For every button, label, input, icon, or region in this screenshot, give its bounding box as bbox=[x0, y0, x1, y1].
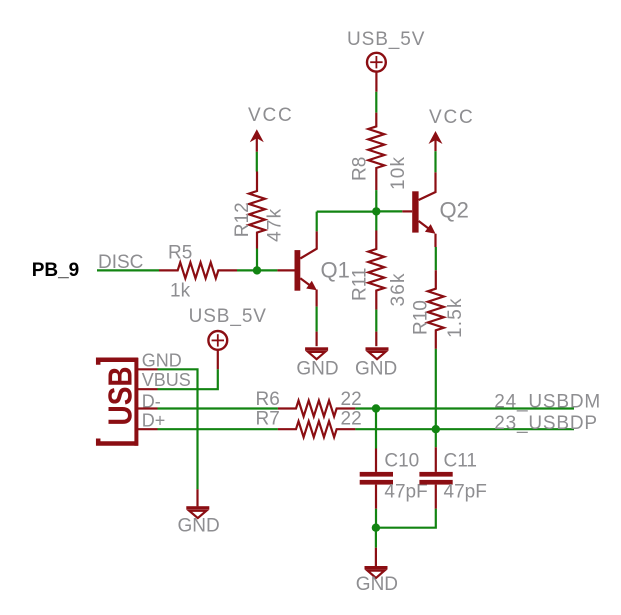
junction node C10/USBDM bbox=[372, 404, 380, 412]
ground symbol (bottom) bbox=[365, 566, 388, 578]
svg-text:36k: 36k bbox=[388, 272, 409, 306]
wire junction to R11 bbox=[375, 211, 377, 230]
resistor R11 bbox=[368, 231, 384, 310]
svg-text:R8: R8 bbox=[350, 157, 371, 181]
svg-text:VCC: VCC bbox=[429, 107, 475, 128]
wire VCC to Q2 collector bbox=[434, 151, 436, 172]
wire Q1 collector up bbox=[316, 212, 318, 232]
svg-text:R7: R7 bbox=[256, 408, 280, 429]
svg-text:USB_5V: USB_5V bbox=[189, 306, 267, 327]
wire Q2 emitter down bbox=[434, 234, 436, 247]
transistor Q1 base stub bbox=[277, 269, 294, 271]
svg-text:GND: GND bbox=[355, 359, 397, 380]
wire emitter net bbox=[316, 307, 318, 332]
svg-text:R6: R6 bbox=[256, 389, 280, 410]
wire R11 to GND bbox=[375, 310, 377, 332]
wire 23_USBDP net bbox=[355, 428, 574, 430]
svg-text:PB_9: PB_9 bbox=[32, 260, 80, 281]
resistor R6 bbox=[278, 401, 356, 417]
ground symbol (R11) bbox=[366, 347, 389, 359]
junction node DISC/R12/Q1 bbox=[253, 266, 261, 274]
wire USB_5V to R8 bbox=[375, 92, 377, 113]
wire 24_USBDM net bbox=[355, 407, 574, 409]
svg-text:GND: GND bbox=[178, 516, 220, 537]
wire D- net to R6 bbox=[158, 407, 278, 409]
svg-text:47k: 47k bbox=[265, 208, 286, 242]
svg-text:47pF: 47pF bbox=[444, 482, 487, 503]
svg-text:VBUS: VBUS bbox=[142, 370, 191, 390]
wire C11 to GND junction bbox=[376, 509, 436, 528]
svg-text:C10: C10 bbox=[384, 451, 419, 472]
wire VCC to R12 bbox=[256, 152, 258, 172]
connector J1 USB body bbox=[98, 358, 138, 446]
resistor R7 bbox=[278, 421, 356, 437]
wire R12 to junction bbox=[256, 249, 258, 271]
pin D- stub bbox=[138, 407, 158, 409]
svg-text:Q2: Q2 bbox=[440, 198, 469, 223]
wire Q1 collector to junction bbox=[317, 211, 377, 213]
wire USBDP to C11 bbox=[435, 429, 437, 447]
wire USBDM to C10 bbox=[375, 409, 377, 449]
svg-text:USB: USB bbox=[101, 366, 139, 425]
pin D+ stub bbox=[138, 428, 158, 430]
svg-text:GND: GND bbox=[142, 351, 182, 371]
svg-text:1.5k: 1.5k bbox=[445, 297, 466, 338]
svg-text:10k: 10k bbox=[388, 156, 409, 190]
wire to GND stub bbox=[316, 332, 318, 347]
capacitor C11 bbox=[419, 447, 452, 509]
svg-text:47pF: 47pF bbox=[384, 482, 427, 503]
svg-text:D+: D+ bbox=[142, 411, 166, 431]
transistor Q2 base stub bbox=[402, 210, 412, 212]
resistor R12 bbox=[249, 172, 265, 249]
wire D+ net to R7 bbox=[158, 428, 278, 430]
wire GND net from USB bbox=[158, 369, 198, 489]
wire Q1 emitter down bbox=[316, 290, 318, 307]
power symbol USB_5V (top) bbox=[347, 29, 425, 92]
wire R5 to Q1 base bbox=[237, 269, 277, 271]
wire USB_5V to VBUS bbox=[158, 369, 218, 389]
wire junction to GND bbox=[375, 528, 377, 548]
transistor Q2 bbox=[412, 172, 435, 233]
wire C10 to GND junction bbox=[375, 509, 377, 528]
svg-text:R10: R10 bbox=[410, 300, 431, 335]
pin VBUS stub bbox=[138, 388, 158, 390]
ground symbol (USB) bbox=[186, 506, 209, 518]
wire R10 to USBDP net bbox=[435, 349, 437, 429]
svg-text:22: 22 bbox=[341, 408, 362, 429]
svg-text:GND: GND bbox=[296, 359, 338, 380]
svg-text:24_USBDM: 24_USBDM bbox=[494, 392, 601, 413]
svg-text:1k: 1k bbox=[170, 280, 191, 301]
resistor R5 bbox=[159, 262, 237, 278]
resistor R8 bbox=[368, 113, 384, 191]
wire R8 to junction bbox=[375, 190, 377, 211]
svg-text:23_USBDP: 23_USBDP bbox=[494, 413, 598, 434]
junction node R8/Q1/Q2/R11 bbox=[372, 207, 380, 215]
capacitor C10 bbox=[360, 449, 393, 509]
svg-text:USB_5V: USB_5V bbox=[347, 29, 425, 50]
junction node bottom GND bbox=[372, 524, 380, 532]
wire DISC net bbox=[97, 269, 159, 271]
svg-text:R11: R11 bbox=[350, 268, 371, 301]
wire GND stub bottom left bbox=[196, 489, 198, 506]
svg-text:22: 22 bbox=[341, 389, 362, 410]
svg-text:C11: C11 bbox=[444, 451, 477, 472]
wire emitter to R10 bbox=[435, 247, 437, 270]
svg-text:GND: GND bbox=[356, 574, 398, 595]
pin GND stub bbox=[138, 368, 158, 370]
power symbol VCC (left) bbox=[248, 105, 294, 152]
svg-text:Q1: Q1 bbox=[321, 258, 350, 283]
ground symbol (Q1 emitter) bbox=[305, 347, 328, 359]
power symbol USB_5V (left) bbox=[189, 306, 267, 369]
wire R11 GND stub bbox=[375, 332, 377, 347]
svg-text:R12: R12 bbox=[232, 202, 253, 237]
svg-text:VCC: VCC bbox=[248, 105, 294, 126]
power symbol VCC (right) bbox=[429, 107, 475, 151]
junction node C11/USBDP bbox=[432, 425, 440, 433]
transistor Q1 bbox=[295, 231, 317, 290]
svg-text:R5: R5 bbox=[168, 242, 192, 263]
resistor R10 bbox=[428, 270, 444, 349]
wire GND stub bottom bbox=[375, 548, 377, 567]
wire junction to Q2 base bbox=[376, 210, 402, 212]
